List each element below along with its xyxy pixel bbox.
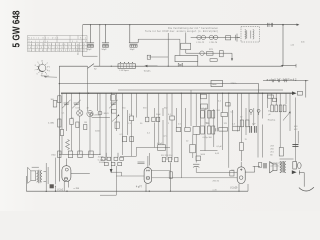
svg-text:1MΩ: 1MΩ [51, 154, 56, 156]
svg-text:292·26: 292·26 [213, 181, 220, 183]
svg-text:Drucktasten: Drucktasten [77, 43, 80, 55]
svg-text:50pF: 50pF [156, 114, 161, 116]
svg-text:9: 9 [37, 62, 38, 64]
svg-text:50µF: 50µF [102, 49, 108, 51]
svg-text:Netz: Netz [212, 83, 217, 86]
svg-text:1: 1 [47, 63, 48, 65]
svg-text:auf U27-8EP=42: auf U27-8EP=42 [267, 78, 297, 82]
svg-text:5 GW 648: 5 GW 648 [12, 10, 23, 47]
svg-text:7: 7 [35, 70, 36, 72]
svg-text:Röhre U11 U12: Röhre U11 U12 [28, 36, 58, 39]
svg-text:352 353 354: 352 353 354 [161, 155, 173, 157]
svg-text:L14 Sperr.: L14 Sperr. [120, 69, 130, 72]
svg-text:Tonabn.: Tonabn. [144, 71, 152, 73]
svg-text:50µF: 50µF [87, 49, 93, 51]
svg-text:EF41: EF41 [104, 113, 110, 115]
svg-text:6: 6 [37, 74, 38, 76]
svg-text:8: 8 [35, 65, 36, 67]
svg-text:Teile ist bei UKW-Ger. anders: Teile ist bei UKW-Ger. anders ausgef. (s… [145, 30, 218, 33]
svg-text:10: 10 [41, 60, 43, 62]
svg-text:am: am [164, 136, 167, 138]
svg-text:L73·L74: L73·L74 [210, 42, 218, 44]
svg-text:10µF: 10µF [130, 49, 136, 51]
svg-text:0,05µ 300: 0,05µ 300 [203, 137, 213, 139]
svg-text:0,5MΩ: 0,5MΩ [93, 115, 100, 117]
svg-text:0,1µF: 0,1µF [202, 108, 208, 110]
svg-text:1M: 1M [84, 122, 87, 124]
svg-text:Regelsp.: Regelsp. [268, 119, 277, 121]
svg-text:0,1MΩ: 0,1MΩ [48, 123, 55, 125]
svg-text:U 2x29: U 2x29 [230, 188, 238, 190]
svg-text:220V~: 220V~ [231, 83, 238, 85]
svg-text:3: 3 [49, 71, 50, 73]
svg-text:a·785: a·785 [74, 188, 80, 190]
svg-text:UCH: UCH [76, 108, 81, 110]
svg-text:0,1µF: 0,1µF [217, 146, 223, 148]
svg-text:0,1µF: 0,1µF [157, 143, 163, 145]
svg-text:2: 2 [49, 66, 50, 68]
svg-text:am Lautst.: am Lautst. [270, 165, 280, 168]
svg-text:4·µF7: 4·µF7 [136, 187, 143, 189]
svg-text:Ug 1,2 3,4: Ug 1,2 3,4 [28, 41, 48, 43]
svg-text:L71·L72: L71·L72 [197, 42, 205, 44]
